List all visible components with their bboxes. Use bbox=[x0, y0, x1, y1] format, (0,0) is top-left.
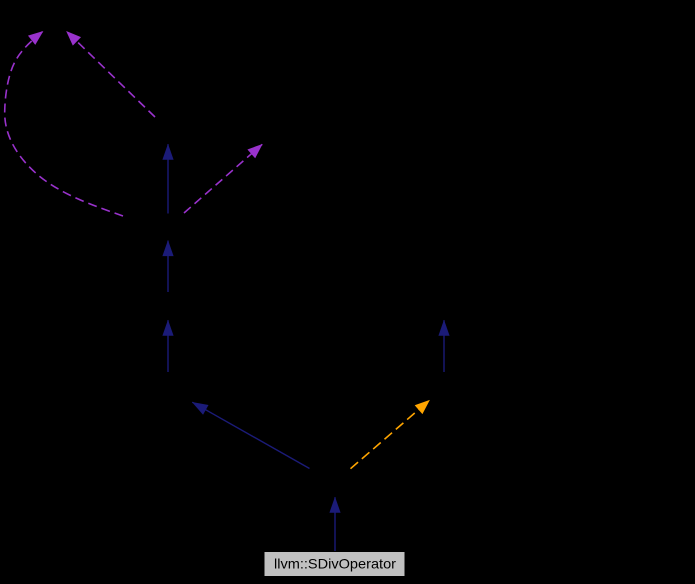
svg-text:llvm::SDivOperator: llvm::SDivOperator bbox=[274, 556, 396, 572]
